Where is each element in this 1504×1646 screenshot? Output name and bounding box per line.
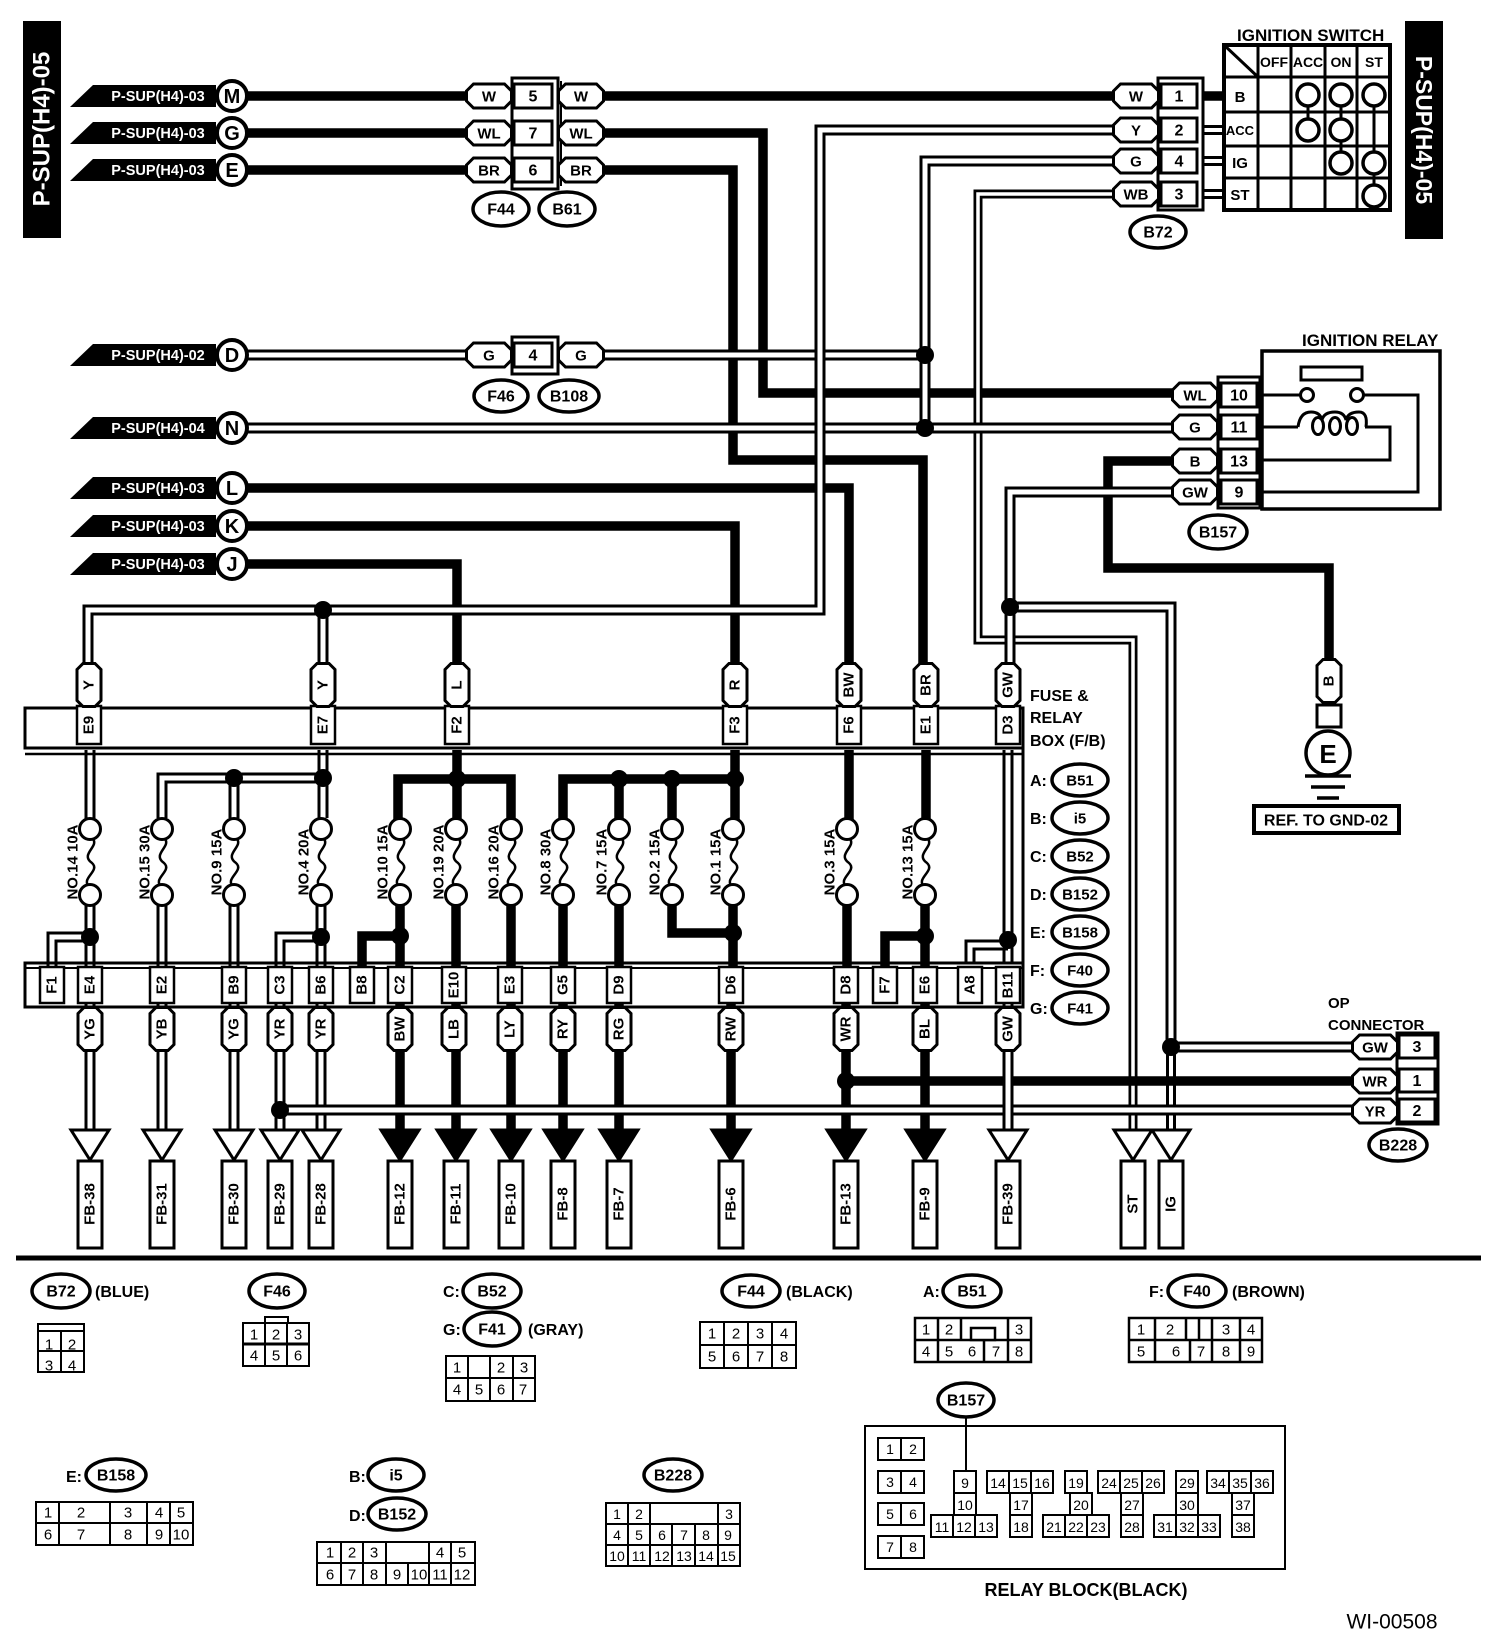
svg-text:1: 1 — [1175, 89, 1184, 106]
svg-text:B51: B51 — [1066, 773, 1094, 790]
fuse NO.3 15A — [844, 838, 851, 887]
arrow to FB-39 — [989, 1130, 1027, 1160]
wire RG drop FB-7 — [614, 1003, 624, 1133]
pill RG below band — [607, 1008, 631, 1051]
svg-text:3: 3 — [520, 1360, 528, 1377]
svg-text:(BROWN): (BROWN) — [1232, 1284, 1305, 1301]
svg-text:F40: F40 — [1183, 1284, 1211, 1301]
box FB-12 — [388, 1161, 412, 1248]
svg-text:B: B — [1235, 89, 1246, 106]
flag P-SUP(H4)-03 L — [70, 477, 216, 499]
fuse box right edge — [1022, 708, 1025, 1007]
svg-text:BR: BR — [478, 163, 500, 180]
box FB-31 — [150, 1161, 174, 1248]
svg-text:2: 2 — [635, 1506, 643, 1522]
svg-text:1: 1 — [922, 1322, 930, 1339]
svg-text:21: 21 — [1046, 1519, 1062, 1535]
svg-text:E10: E10 — [446, 972, 463, 999]
svg-text:B152: B152 — [378, 1507, 416, 1524]
slot E1 — [914, 706, 938, 744]
wire B72 G4 vertical — [925, 161, 1197, 428]
wire YR drop FB-28 — [316, 1003, 327, 1133]
svg-text:LY: LY — [502, 1020, 519, 1038]
wire D3 to B11 — [1003, 750, 1014, 963]
svg-text:B: B — [1321, 675, 1338, 686]
svg-text:2: 2 — [945, 1322, 953, 1339]
node YR2 tap — [271, 1101, 289, 1119]
svg-text:LB: LB — [446, 1019, 463, 1039]
connector oval B108 — [539, 380, 599, 412]
svg-text:5: 5 — [708, 1349, 716, 1366]
slot D8 — [834, 967, 858, 1003]
fuse NO.15 30A — [159, 838, 166, 887]
pin G 11 of B157 — [1173, 415, 1218, 439]
pill BW below band — [388, 1008, 412, 1051]
svg-text:3: 3 — [294, 1327, 302, 1344]
svg-text:29: 29 — [1179, 1475, 1195, 1491]
pin G 4 of B72 — [1114, 149, 1159, 173]
svg-text:B52: B52 — [477, 1284, 506, 1301]
svg-text:10: 10 — [609, 1548, 625, 1564]
relay block B157 — [938, 1383, 994, 1417]
svg-text:24: 24 — [1101, 1475, 1117, 1491]
fuse box lower band — [25, 963, 1023, 1007]
pill WR below band — [834, 1008, 858, 1051]
switch contact links — [1308, 95, 1374, 196]
svg-text:4: 4 — [1247, 1322, 1255, 1339]
wire NO.8 to G5 — [558, 904, 568, 968]
svg-text:NO.2 15A: NO.2 15A — [647, 828, 664, 895]
pill YR below band — [268, 1008, 292, 1051]
wire NO.15 to E2 — [157, 904, 168, 968]
svg-text:G: G — [224, 123, 240, 145]
svg-text:NO.19 20A: NO.19 20A — [431, 824, 448, 899]
svg-text:BR: BR — [570, 163, 592, 180]
svg-text:6: 6 — [968, 1344, 976, 1361]
wire E7 feeder to fuses 15/9/4 — [162, 750, 323, 818]
node F3 feeder — [726, 770, 744, 788]
svg-text:B9: B9 — [226, 975, 243, 994]
svg-text:8: 8 — [124, 1527, 132, 1544]
svg-text:P-SUP(H4)-05: P-SUP(H4)-05 — [29, 52, 56, 207]
ground connector box — [1317, 705, 1341, 727]
svg-text:NO.4 20A: NO.4 20A — [296, 828, 313, 895]
wire YR2 row to OP connector — [280, 1105, 1353, 1116]
svg-text:G:: G: — [443, 1322, 461, 1339]
svg-text:B72: B72 — [46, 1284, 75, 1301]
svg-text:ST: ST — [1230, 187, 1249, 204]
svg-text:31: 31 — [1157, 1519, 1173, 1535]
svg-text:7: 7 — [992, 1344, 1000, 1361]
stub B72-4 to switch IG — [1200, 156, 1224, 166]
svg-text:12: 12 — [956, 1519, 972, 1535]
fuse NO.8 30A — [560, 838, 567, 887]
svg-text:P-SUP(H4)-02: P-SUP(H4)-02 — [111, 348, 204, 364]
svg-text:B6: B6 — [313, 975, 330, 994]
svg-text:FB-30: FB-30 — [226, 1183, 243, 1225]
connector oval B72 — [1130, 216, 1186, 248]
svg-text:FB-31: FB-31 — [154, 1183, 171, 1225]
wire WR drop FB-13 — [841, 1003, 851, 1133]
pin Y 2 of B72 — [1114, 118, 1159, 142]
svg-text:NO.13 15A: NO.13 15A — [900, 824, 917, 899]
wire RW drop FB-6 — [726, 1003, 736, 1133]
svg-text:FB-8: FB-8 — [555, 1187, 572, 1220]
svg-text:B61: B61 — [552, 202, 581, 219]
slot E7 — [311, 706, 335, 744]
wire IG drop tail — [1166, 1040, 1176, 1133]
svg-text:11: 11 — [432, 1567, 448, 1584]
svg-text:3: 3 — [1413, 1039, 1422, 1056]
svg-text:J: J — [226, 554, 237, 576]
svg-text:B157: B157 — [1199, 525, 1237, 542]
node NO.13 out — [916, 927, 934, 945]
svg-text:E9: E9 — [81, 716, 98, 734]
svg-text:1: 1 — [613, 1506, 621, 1522]
svg-text:B51: B51 — [957, 1284, 986, 1301]
connector oval F44 — [473, 192, 529, 226]
svg-text:23: 23 — [1090, 1519, 1106, 1535]
svg-text:F:: F: — [1149, 1284, 1164, 1301]
svg-text:YR: YR — [313, 1018, 330, 1039]
svg-text:D6: D6 — [723, 975, 740, 994]
svg-text:13: 13 — [676, 1548, 692, 1564]
pill YG below band — [222, 1008, 246, 1051]
arrow to FB-7 — [600, 1130, 638, 1160]
arrow to FB-28 — [302, 1130, 340, 1160]
svg-text:5: 5 — [475, 1382, 483, 1399]
wire B72 Y2 down left col to E9 — [88, 130, 1197, 668]
svg-text:4: 4 — [436, 1545, 444, 1562]
slot F2 — [445, 706, 469, 744]
svg-text:B228: B228 — [654, 1468, 692, 1485]
svg-text:6: 6 — [658, 1527, 666, 1543]
svg-text:B228: B228 — [1379, 1138, 1417, 1155]
svg-text:2: 2 — [497, 1360, 505, 1377]
box FB-29 — [268, 1161, 292, 1248]
arrow to IG — [1152, 1130, 1190, 1160]
svg-text:i5: i5 — [1074, 811, 1087, 828]
slot F6 — [837, 706, 861, 744]
wire YB drop FB-31 — [157, 1003, 168, 1133]
pin BR 6 BR row E — [467, 158, 512, 182]
svg-text:GW: GW — [1000, 1015, 1017, 1042]
slot G5 — [551, 967, 575, 1003]
svg-text:5: 5 — [177, 1505, 185, 1522]
svg-text:IG: IG — [1163, 1196, 1180, 1212]
svg-text:35: 35 — [1232, 1475, 1248, 1491]
pin GW 3 of B228 OP connector — [1353, 1035, 1398, 1059]
svg-text:1: 1 — [326, 1545, 334, 1562]
svg-text:3: 3 — [1015, 1322, 1023, 1339]
svg-text:P-SUP(H4)-03: P-SUP(H4)-03 — [111, 89, 204, 105]
svg-text:4: 4 — [250, 1348, 258, 1365]
svg-text:10: 10 — [173, 1527, 190, 1544]
svg-text:WR: WR — [838, 1016, 855, 1041]
connector oval B61 — [539, 192, 595, 226]
node WR1 tap — [837, 1072, 855, 1090]
slot A8 — [958, 967, 982, 1003]
box FB-28 — [309, 1161, 333, 1248]
svg-text:3: 3 — [756, 1326, 764, 1343]
svg-text:F2: F2 — [449, 716, 466, 734]
svg-text:B158: B158 — [1062, 925, 1098, 942]
svg-text:C3: C3 — [272, 975, 289, 994]
svg-text:5: 5 — [945, 1344, 953, 1361]
svg-text:37: 37 — [1235, 1497, 1251, 1513]
svg-text:14: 14 — [698, 1548, 714, 1564]
svg-text:A:: A: — [1030, 773, 1047, 790]
svg-text:YG: YG — [226, 1018, 243, 1040]
pill BR above 926 — [914, 664, 938, 707]
pill R above 735 — [723, 664, 747, 707]
pill LY below band — [498, 1008, 522, 1051]
svg-text:FUSE &: FUSE & — [1030, 688, 1089, 705]
svg-text:i5: i5 — [389, 1468, 402, 1485]
wire NO.9 to B9 — [229, 904, 240, 968]
pill BW above 849 — [837, 664, 861, 707]
svg-text:FB-13: FB-13 — [838, 1183, 855, 1225]
stub B72-1 to switch B — [1197, 91, 1224, 101]
svg-text:15: 15 — [720, 1548, 736, 1564]
slot F7 — [873, 967, 897, 1003]
wire WR1 row to OP connector — [846, 1076, 1353, 1086]
svg-text:REF. TO GND-02: REF. TO GND-02 — [1264, 813, 1388, 830]
svg-text:28: 28 — [1124, 1519, 1140, 1535]
slot E9 — [77, 706, 101, 744]
svg-text:(BLUE): (BLUE) — [95, 1284, 149, 1301]
svg-text:W: W — [482, 89, 497, 106]
arrow to FB-29 — [261, 1130, 299, 1160]
svg-text:10: 10 — [957, 1497, 973, 1513]
svg-text:6: 6 — [1172, 1344, 1180, 1361]
svg-text:WL: WL — [1183, 388, 1206, 405]
connector B72 — [1158, 78, 1203, 210]
pin W 1 of B72 — [1114, 84, 1159, 108]
svg-text:P-SUP(H4)-03: P-SUP(H4)-03 — [111, 519, 204, 535]
svg-text:E4: E4 — [82, 975, 99, 994]
svg-text:3: 3 — [1175, 187, 1184, 204]
wire RY drop FB-8 — [558, 1003, 568, 1133]
svg-text:F46: F46 — [263, 1284, 291, 1301]
arrow to FB-8 — [544, 1130, 582, 1160]
slot E2 — [150, 967, 174, 1003]
wire E row BR to E1 — [247, 170, 923, 668]
svg-text:WI-00508: WI-00508 — [1346, 1611, 1437, 1634]
fuse NO.14 10A — [87, 838, 94, 887]
svg-text:B72: B72 — [1143, 225, 1172, 242]
svg-text:YR: YR — [1365, 1104, 1386, 1121]
box FB-9 — [913, 1161, 937, 1248]
flag P-SUP(H4)-03 E — [70, 159, 216, 181]
node NO.10 out — [391, 927, 409, 945]
fuse NO.7 15A — [616, 838, 623, 887]
slot E6 — [913, 967, 937, 1003]
svg-text:12: 12 — [454, 1567, 471, 1584]
svg-text:2: 2 — [1175, 123, 1184, 140]
svg-text:Y: Y — [315, 680, 332, 690]
pin GW 9 of B157 — [1173, 480, 1218, 504]
wire E1 to fuse NO.13 — [921, 750, 931, 820]
svg-text:F:: F: — [1030, 963, 1045, 980]
slot E10 — [442, 967, 466, 1003]
box FB-8 — [551, 1161, 575, 1248]
ground symbol E — [1306, 731, 1350, 775]
svg-text:FB-29: FB-29 — [272, 1183, 289, 1225]
svg-text:NO.14 10A: NO.14 10A — [65, 824, 82, 899]
svg-text:RG: RG — [611, 1018, 628, 1041]
svg-text:L: L — [449, 680, 466, 689]
fuse NO.19 20A — [453, 838, 460, 887]
svg-text:36: 36 — [1254, 1475, 1270, 1491]
right title bar P-SUP(H4)-05 — [1405, 21, 1443, 239]
svg-text:RELAY BLOCK(BLACK): RELAY BLOCK(BLACK) — [984, 1580, 1187, 1600]
wire NO.2 jog to D6 — [672, 904, 733, 933]
svg-text:K: K — [225, 516, 240, 538]
pin WB 3 of B72 — [1114, 182, 1159, 206]
pinout B72 (BLUE) — [32, 1274, 90, 1308]
arrow to FB-10 — [492, 1130, 530, 1160]
svg-text:CONNECTOR: CONNECTOR — [1328, 1017, 1425, 1034]
box FB-7 — [607, 1161, 631, 1248]
svg-text:11: 11 — [935, 1519, 950, 1535]
svg-text:4: 4 — [922, 1344, 930, 1361]
svg-text:7: 7 — [77, 1527, 85, 1544]
svg-text:(GRAY): (GRAY) — [528, 1322, 583, 1339]
svg-text:D9: D9 — [611, 975, 628, 994]
wire BW drop FB-12 — [395, 1003, 405, 1133]
wire NO.16 to E3 — [506, 904, 516, 968]
svg-text:1: 1 — [886, 1441, 894, 1457]
svg-text:F46: F46 — [487, 389, 515, 406]
wire NO.13 out to E6 and F7 — [885, 904, 925, 968]
node D/G junction — [916, 346, 934, 364]
svg-text:NO.7 15A: NO.7 15A — [594, 828, 611, 895]
svg-text:(BLACK): (BLACK) — [786, 1284, 853, 1301]
pin G 4 G row D — [467, 343, 512, 367]
slot B8 — [350, 967, 374, 1003]
box FB-11 — [444, 1161, 468, 1248]
node fuse7 tap — [610, 770, 628, 788]
svg-text:RW: RW — [723, 1016, 740, 1042]
svg-text:E: E — [1319, 739, 1336, 769]
svg-text:6: 6 — [326, 1567, 334, 1584]
svg-text:NO.9 15A: NO.9 15A — [209, 828, 226, 895]
svg-text:BR: BR — [918, 674, 935, 696]
svg-text:YR: YR — [272, 1018, 289, 1039]
connector oval F46 — [474, 380, 528, 412]
svg-text:27: 27 — [1124, 1497, 1140, 1513]
svg-text:3: 3 — [45, 1358, 53, 1375]
svg-text:FB-28: FB-28 — [313, 1183, 330, 1225]
wire relay GW9 to IG line — [1010, 492, 1173, 1044]
svg-text:D:: D: — [349, 1508, 366, 1525]
node NO.2/NO.1 join — [724, 924, 742, 942]
svg-text:18: 18 — [1013, 1519, 1029, 1535]
pinout B228 — [644, 1459, 702, 1491]
wire LY drop FB-10 — [506, 1003, 516, 1133]
svg-text:B152: B152 — [1062, 887, 1098, 904]
svg-text:3: 3 — [124, 1505, 132, 1522]
box FB-13 — [834, 1161, 858, 1248]
svg-text:7: 7 — [529, 126, 538, 143]
svg-text:E3: E3 — [502, 976, 519, 994]
svg-text:9: 9 — [724, 1527, 732, 1543]
svg-text:3: 3 — [886, 1474, 894, 1490]
svg-text:2: 2 — [1166, 1322, 1174, 1339]
svg-text:8: 8 — [1015, 1344, 1023, 1361]
arrow to FB-12 — [381, 1130, 419, 1160]
svg-text:13: 13 — [978, 1519, 994, 1535]
fuse NO.10 15A — [397, 838, 404, 887]
svg-text:19: 19 — [1068, 1475, 1084, 1491]
node N/G junction — [916, 419, 934, 437]
slot E4 — [78, 967, 102, 1003]
pin WL 10 of B157 — [1173, 383, 1218, 407]
slot F1 — [40, 967, 64, 1003]
pin WL 7 WL row G — [467, 121, 512, 145]
svg-text:25: 25 — [1123, 1475, 1139, 1491]
svg-text:6: 6 — [294, 1348, 302, 1365]
wire branch to E7 — [318, 610, 329, 668]
wire BL drop FB-9 — [920, 1003, 930, 1133]
svg-text:ACC: ACC — [1226, 123, 1255, 138]
svg-text:ACC: ACC — [1293, 54, 1323, 70]
fuse NO.13 15A — [922, 838, 929, 887]
arrow to FB-38 — [71, 1130, 109, 1160]
svg-text:6: 6 — [732, 1349, 740, 1366]
box FB-6 — [719, 1161, 743, 1248]
slot C2 — [388, 967, 412, 1003]
pill BL below band — [913, 1008, 937, 1051]
svg-text:8: 8 — [370, 1567, 378, 1584]
svg-text:D3: D3 — [1000, 715, 1017, 734]
svg-text:F7: F7 — [877, 976, 894, 994]
wire N row P-SUP(H4)-04 hollow to relay G11 — [247, 423, 1173, 434]
svg-text:P-SUP(H4)-03: P-SUP(H4)-03 — [111, 126, 204, 142]
flag P-SUP(H4)-03 K — [70, 515, 216, 537]
svg-text:G: G — [1130, 154, 1142, 171]
pinout F46 — [249, 1274, 305, 1308]
svg-text:OP: OP — [1328, 995, 1350, 1012]
svg-text:12: 12 — [654, 1548, 670, 1564]
svg-text:F41: F41 — [478, 1322, 506, 1339]
svg-text:1: 1 — [44, 1505, 52, 1522]
wire J row to L F2 — [247, 564, 457, 668]
pin YR 2 of B228 OP connector — [1353, 1099, 1398, 1123]
fuse NO.9 15A — [231, 838, 238, 887]
wire relay B13 to ground — [1108, 461, 1329, 662]
svg-text:WL: WL — [569, 126, 592, 143]
svg-text:2: 2 — [732, 1326, 740, 1343]
svg-text:32: 32 — [1179, 1519, 1195, 1535]
svg-text:RY: RY — [555, 1019, 572, 1039]
slot C3 — [268, 967, 292, 1003]
bottom separator rule — [16, 1256, 1481, 1261]
wire YR drop FB-29 — [275, 1003, 286, 1133]
svg-text:NO.10 15A: NO.10 15A — [375, 824, 392, 899]
svg-text:4: 4 — [909, 1474, 917, 1490]
wire M row W thick — [247, 91, 1114, 101]
svg-text:B11: B11 — [1000, 972, 1017, 999]
arrow to ST — [1114, 1130, 1152, 1160]
svg-text:8: 8 — [702, 1527, 710, 1543]
svg-text:P-SUP(H4)-03: P-SUP(H4)-03 — [111, 557, 204, 573]
svg-text:IGNITION RELAY: IGNITION RELAY — [1302, 331, 1439, 350]
svg-text:B8: B8 — [354, 975, 371, 994]
svg-text:FB-39: FB-39 — [1000, 1183, 1017, 1225]
wire F2 feeder to fuses 10/19/16 — [398, 750, 511, 820]
